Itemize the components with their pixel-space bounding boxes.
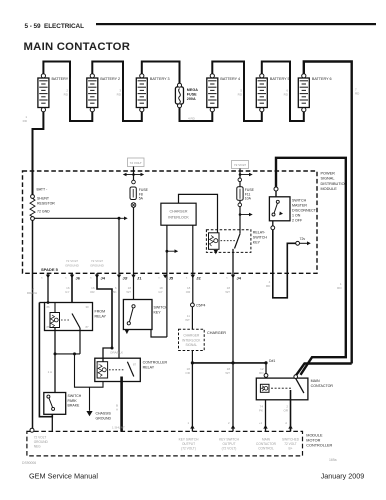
svg-text:72 VOLT: 72 VOLT xyxy=(91,259,103,263)
svg-text:86: 86 xyxy=(47,305,51,309)
svg-text:RELAY: RELAY xyxy=(95,315,107,319)
svg-text:WT: WT xyxy=(185,318,190,322)
svg-text:PARK: PARK xyxy=(68,399,78,403)
svg-text:INTERLOCK: INTERLOCK xyxy=(168,215,189,219)
svg-text:86: 86 xyxy=(97,363,101,367)
svg-text:x: x xyxy=(65,276,67,280)
wire label 1 RD left xyxy=(23,115,28,123)
battery BATTERY 2 xyxy=(87,74,120,112)
wire thick B+ feed into module xyxy=(276,158,347,187)
svg-text:RD: RD xyxy=(337,286,342,290)
svg-text:1: 1 xyxy=(187,421,189,425)
svg-text:CHASSIS: CHASSIS xyxy=(96,412,112,416)
wire B5 top to B6 xyxy=(262,62,304,122)
switch SWITCH KEY xyxy=(123,300,168,335)
svg-text:2: 2 xyxy=(228,421,230,425)
relay CONTROLLER RELAY xyxy=(95,358,168,381)
svg-text:WT: WT xyxy=(225,371,230,375)
svg-text:RD/WH: RD/WH xyxy=(27,291,37,295)
svg-text:DISCONNECT: DISCONNECT xyxy=(292,209,317,213)
svg-text:RD: RD xyxy=(266,284,271,288)
relay FROM RELAY xyxy=(45,303,107,354)
svg-text:RELAY: RELAY xyxy=(143,366,155,370)
svg-text:GROUND: GROUND xyxy=(90,264,105,268)
pin SPADE 5 xyxy=(41,267,59,303)
wire battery serpentine B1 top to B2 xyxy=(43,62,92,122)
header xyxy=(24,23,377,53)
wire spade5 left leg to park brake bottom xyxy=(39,303,52,417)
svg-text:85: 85 xyxy=(47,325,51,329)
svg-text:CONTROLLER: CONTROLLER xyxy=(306,444,332,448)
svg-text:200A: 200A xyxy=(187,97,196,101)
node 72 VOLT label left xyxy=(128,158,145,167)
node 72v output arrow xyxy=(296,237,311,245)
wire fuse to B4 xyxy=(180,105,213,122)
svg-text:KEY: KEY xyxy=(253,241,261,245)
wire shunt tap down to controller relay xyxy=(118,218,120,361)
junction arrows on F8 wire xyxy=(123,173,144,177)
svg-text:KEY SWITCH: KEY SWITCH xyxy=(219,438,239,442)
svg-text:J6: J6 xyxy=(76,276,81,281)
svg-text:DISTRIBUTION: DISTRIBUTION xyxy=(321,182,348,186)
svg-text:BRAKE: BRAKE xyxy=(68,404,81,408)
wire B2 top to B3 xyxy=(92,62,142,122)
wire contactor coil feed xyxy=(264,363,268,378)
svg-text:BATTERY 6: BATTERY 6 xyxy=(312,77,332,81)
svg-text:RD: RD xyxy=(259,371,264,375)
svg-text:GY: GY xyxy=(158,290,162,294)
svg-text:10A: 10A xyxy=(245,197,252,201)
wire label 2 RD xyxy=(64,89,69,97)
wire B3 top to fuse xyxy=(142,62,180,87)
wire C5/P4 down to charger signal box xyxy=(191,307,193,329)
svg-text:x: x xyxy=(226,276,228,280)
wire F11 branch down xyxy=(239,169,241,179)
wire charger interlock top to relay coil xyxy=(179,194,218,233)
wire contactor switched output xyxy=(284,390,291,431)
svg-text:SHUNT: SHUNT xyxy=(37,197,50,201)
svg-text:x: x xyxy=(186,276,188,280)
svg-text:FROM: FROM xyxy=(95,310,106,314)
connector C5/P4 xyxy=(191,303,206,308)
svg-text:SWITCH: SWITCH xyxy=(154,305,169,309)
svg-text:x: x xyxy=(41,276,43,280)
svg-text:GROUND: GROUND xyxy=(65,264,80,268)
switch SWITCH MASTER DISCONNECT xyxy=(269,197,316,223)
svg-text:RESISTOR: RESISTOR xyxy=(37,201,55,205)
svg-text:RD: RD xyxy=(23,119,28,123)
svg-text:A: A xyxy=(285,421,287,425)
svg-text:SWITCHED: SWITCHED xyxy=(282,438,300,442)
svg-text:CHARGER: CHARGER xyxy=(183,334,200,338)
wire F8 branch down xyxy=(133,167,135,181)
svg-text:SWITCH: SWITCH xyxy=(292,199,307,203)
module motor controller label xyxy=(306,434,332,448)
svg-text:MASTER: MASTER xyxy=(292,204,307,208)
switch SWITCH PARK BRAKE xyxy=(44,370,82,414)
wire controller relay output thick xyxy=(112,377,125,432)
fuse F8 5A xyxy=(130,180,149,200)
battery BATTERY 4 xyxy=(207,74,240,112)
svg-text:FUSE: FUSE xyxy=(187,93,197,97)
svg-text:GROUND: GROUND xyxy=(34,440,49,444)
fuse MEGA FUSE 200A xyxy=(175,83,198,108)
svg-text:BATTERY 2: BATTERY 2 xyxy=(100,77,120,81)
svg-text:RD: RD xyxy=(284,93,289,97)
svg-text:RD: RD xyxy=(238,93,243,97)
svg-text:SWITCH: SWITCH xyxy=(253,236,268,240)
svg-text:BATTERY 1: BATTERY 1 xyxy=(52,77,72,81)
wire label 1 RD right bus xyxy=(337,282,342,290)
svg-text:OR: OR xyxy=(185,371,190,375)
svg-text:INTERLOCK: INTERLOCK xyxy=(182,338,201,342)
wire F11 to relay xyxy=(239,182,241,234)
node 72 VOLT label right xyxy=(232,161,249,169)
wire shunt continues down left xyxy=(32,220,34,428)
svg-text:1 ON: 1 ON xyxy=(292,214,301,218)
svg-text:72 VOLT: 72 VOLT xyxy=(284,442,297,446)
svg-text:DS90006: DS90006 xyxy=(22,461,36,465)
svg-text:30: 30 xyxy=(86,305,90,309)
wire key bus horizontal xyxy=(185,359,275,375)
svg-text:2 OFF: 2 OFF xyxy=(292,219,303,223)
svg-text:CONTACTOR: CONTACTOR xyxy=(311,384,334,388)
svg-text:RELAY-: RELAY- xyxy=(253,231,266,235)
module charger interlock xyxy=(161,203,196,225)
svg-text:CHARGER: CHARGER xyxy=(207,331,226,335)
wire key output 1 to strip xyxy=(191,363,193,432)
wire label 4 RD below master disconnect xyxy=(266,280,271,288)
svg-text:ORA/BLK: ORA/BLK xyxy=(110,351,123,355)
svg-text:GROUND: GROUND xyxy=(96,416,112,420)
node 72 VOLT GROUND label 2 xyxy=(90,259,105,268)
wire label 6 RD xyxy=(284,89,289,97)
svg-text:RD: RD xyxy=(117,93,122,97)
wire B4 top to B5 xyxy=(212,62,261,122)
wire contactor control output xyxy=(259,400,266,432)
pin arrows into motor controller strip xyxy=(187,421,292,429)
svg-text:SIGNAL: SIGNAL xyxy=(321,177,335,181)
svg-text:CONTACTOR: CONTACTOR xyxy=(256,442,277,446)
module motor controller strip (dashed) xyxy=(27,428,303,456)
svg-text:5 - 59 ELECTRICAL: 5 - 59 ELECTRICAL xyxy=(25,23,85,30)
svg-text:x: x xyxy=(90,276,92,280)
wire charger interlock left output xyxy=(151,225,178,337)
junction arrow on F11 wire top xyxy=(239,173,253,177)
svg-text:NEG: NEG xyxy=(34,445,41,449)
svg-text:January 2009: January 2009 xyxy=(321,472,365,481)
wire ground branch xyxy=(55,354,103,387)
svg-text:MOTOR: MOTOR xyxy=(306,439,320,443)
wire charger interlock right output xyxy=(192,225,194,303)
wire B6 top to main B+ bus down right side xyxy=(304,62,352,364)
wire label 7 RD xyxy=(355,88,360,96)
wire label 3 RD xyxy=(117,89,122,97)
svg-text:OR: OR xyxy=(90,290,95,294)
svg-text:WT: WT xyxy=(225,290,230,294)
wire master disconnect down and U-turn xyxy=(271,221,296,298)
svg-text:BATT -: BATT - xyxy=(37,188,49,192)
junction arrow on F11 wire lower xyxy=(239,213,253,217)
svg-text:OR: OR xyxy=(284,409,289,413)
svg-text:SWITCH: SWITCH xyxy=(68,394,82,398)
pin J4 right xyxy=(226,275,242,281)
svg-text:OUTPUT: OUTPUT xyxy=(182,442,195,446)
svg-text:KEY: KEY xyxy=(154,310,162,314)
svg-text:POWER: POWER xyxy=(321,172,336,176)
svg-text:72 VOLT: 72 VOLT xyxy=(34,436,47,440)
svg-text:WT: WT xyxy=(126,290,131,294)
pin J4 xyxy=(90,273,112,348)
svg-text:MAIN: MAIN xyxy=(262,438,271,442)
svg-text:5A: 5A xyxy=(139,197,144,201)
svg-text:OUTPUT: OUTPUT xyxy=(222,442,235,446)
node 72 VOLT GROUND label 1 xyxy=(65,259,80,268)
wire thick V1 elbow into contactor xyxy=(295,364,351,377)
fuse F11 10A xyxy=(237,178,255,207)
resistor shunt (BATT-) xyxy=(30,188,55,221)
svg-text:BATTERY 3: BATTERY 3 xyxy=(150,77,170,81)
svg-text:72 VOLT: 72 VOLT xyxy=(66,259,78,263)
svg-text:CHARGER: CHARGER xyxy=(170,209,188,213)
pin J2 xyxy=(186,275,202,281)
wire park brake bottom to strip xyxy=(51,414,53,431)
svg-text:SPADE 5: SPADE 5 xyxy=(41,267,59,272)
svg-text:87: 87 xyxy=(86,325,90,329)
wire from relay coil bottom down to park brake xyxy=(54,328,77,393)
svg-text:72v: 72v xyxy=(300,237,306,241)
battery BATTERY 1 xyxy=(38,74,71,112)
svg-text:(72 VOLT): (72 VOLT) xyxy=(181,447,196,451)
pin J1 xyxy=(127,275,143,281)
svg-text:x: x xyxy=(127,276,129,280)
wire label 5 RD xyxy=(238,89,243,97)
svg-text:1 A: 1 A xyxy=(48,370,52,374)
contactor MAIN CONTACTOR xyxy=(256,375,333,400)
svg-text:MAIN: MAIN xyxy=(311,379,320,383)
battery BATTERY 6 xyxy=(298,74,331,112)
svg-text:MEGA: MEGA xyxy=(187,88,198,92)
pin J6 xyxy=(65,273,81,313)
battery BATTERY 5 xyxy=(256,74,289,112)
svg-text:GY: GY xyxy=(65,290,69,294)
svg-text:C5/P4: C5/P4 xyxy=(196,304,206,308)
svg-text:J2: J2 xyxy=(196,276,201,281)
svg-text:72 VOLT: 72 VOLT xyxy=(130,161,142,165)
svg-text:(72 VOLT): (72 VOLT) xyxy=(222,447,237,451)
relay RELAY-SWITCH KEY (dashed) xyxy=(206,230,267,255)
svg-text:B+: B+ xyxy=(289,447,293,451)
svg-text:72 VOLT: 72 VOLT xyxy=(234,163,246,167)
svg-text:BK: BK xyxy=(112,290,116,294)
ground chassis xyxy=(86,387,111,420)
svg-text:87: 87 xyxy=(133,363,137,367)
svg-text:MODULE: MODULE xyxy=(306,434,323,438)
svg-text:J4: J4 xyxy=(237,276,242,281)
module box Power Signal Distribution Module (dashed) xyxy=(23,171,348,273)
svg-text:OR: OR xyxy=(186,290,191,294)
connector circle above master disconnect xyxy=(274,187,278,197)
svg-text:GEM Service Manual: GEM Service Manual xyxy=(29,472,98,481)
wire relay output to bottom pin xyxy=(232,249,234,432)
pin J5 xyxy=(158,275,174,281)
footer xyxy=(22,458,364,481)
svg-text:MAIN CONTACTOR: MAIN CONTACTOR xyxy=(24,41,131,53)
svg-text:1 SHUNT: 1 SHUNT xyxy=(112,426,125,430)
svg-text:PK: PK xyxy=(259,409,263,413)
svg-text:SIGNAL: SIGNAL xyxy=(185,343,197,347)
svg-text:RD: RD xyxy=(64,93,69,97)
pin J3 xyxy=(117,275,128,281)
svg-text:BATTERY 5: BATTERY 5 xyxy=(270,77,290,81)
svg-text:4 RD: 4 RD xyxy=(188,117,196,121)
svg-text:x: x xyxy=(158,276,160,280)
wire spade5 horizontal to coil top xyxy=(39,301,49,304)
svg-text:J5: J5 xyxy=(169,276,174,281)
wire B1 bottom to shunt xyxy=(33,111,44,196)
svg-text:J1: J1 xyxy=(137,276,142,281)
battery BATTERY 3 xyxy=(136,74,169,112)
svg-text:+1: +1 xyxy=(259,421,263,425)
svg-text:CONTROL: CONTROL xyxy=(258,447,274,451)
wire charger signal to key bus xyxy=(191,351,193,363)
connector symbol below F8 xyxy=(131,203,136,208)
svg-text:169a: 169a xyxy=(329,458,337,462)
wire labels under pins xyxy=(27,286,230,295)
wire shunt tap horizontal xyxy=(34,217,127,221)
svg-text:72 GND: 72 GND xyxy=(37,210,50,214)
wire thick V2 down outside module xyxy=(301,157,346,375)
svg-text:D#1: D#1 xyxy=(269,359,275,363)
wire F8 to switch key xyxy=(133,207,135,299)
svg-text:J4: J4 xyxy=(101,276,106,281)
svg-text:A: A xyxy=(116,408,118,412)
wire label 4 RD xyxy=(188,117,196,121)
svg-text:CONTROLLER: CONTROLLER xyxy=(143,361,168,365)
module charger interlock signal (dashed) xyxy=(179,314,227,351)
svg-text:MODULE: MODULE xyxy=(321,187,338,191)
wire key feed to controller coil xyxy=(103,347,123,362)
svg-text:KEY SWITCH: KEY SWITCH xyxy=(179,438,199,442)
svg-text:BATTERY 4: BATTERY 4 xyxy=(220,77,240,81)
svg-text:RD: RD xyxy=(355,92,360,96)
